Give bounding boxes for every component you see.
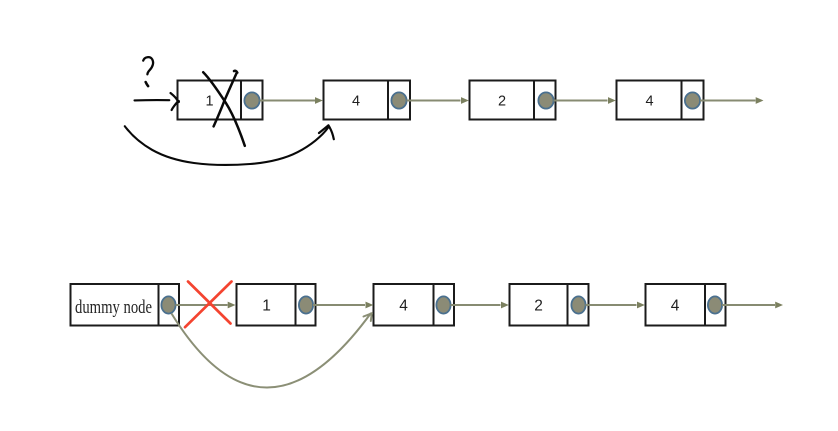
- svg-text:dummy node: dummy node: [75, 297, 152, 318]
- svg-text:4: 4: [645, 94, 653, 110]
- svg-text:1: 1: [262, 297, 271, 314]
- svg-text:2: 2: [498, 94, 506, 110]
- svg-text:4: 4: [399, 297, 408, 314]
- svg-text:4: 4: [352, 94, 360, 110]
- svg-text:4: 4: [671, 297, 680, 314]
- svg-text:1: 1: [205, 94, 213, 110]
- svg-text:2: 2: [534, 297, 543, 314]
